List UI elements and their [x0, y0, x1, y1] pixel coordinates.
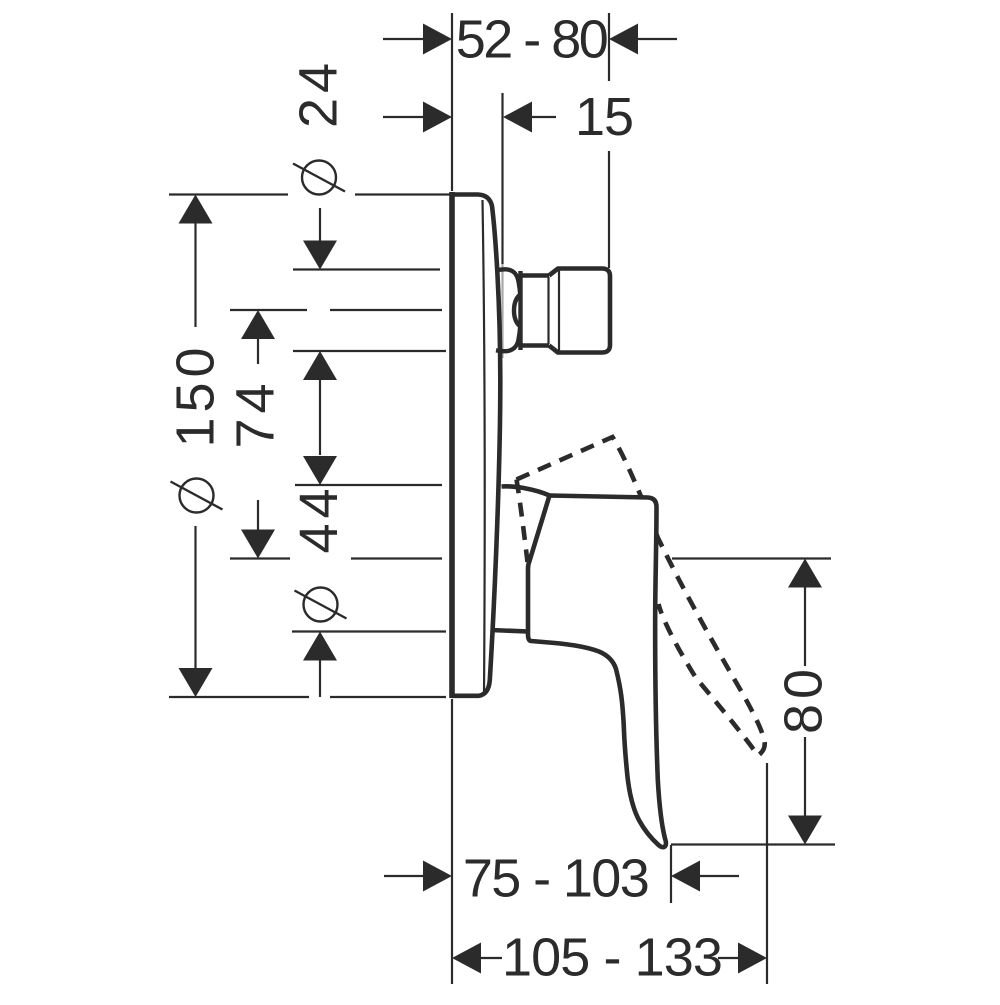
- connector stub cylinder top and bottom edges: [521, 276, 550, 346]
- handle hub bottom edge: [491, 630, 529, 632]
- dimension 74 lower tail: [257, 500, 259, 530]
- dimension 74 top arrowhead: [241, 310, 275, 339]
- escutcheon plate back edge: [449, 192, 455, 698]
- dimension D44 bottom arrowhead: [303, 632, 337, 661]
- handle hub top edge: [502, 486, 550, 495]
- dimension 75-103 right tail: [700, 875, 739, 877]
- reference line: handle pivot level right part: [672, 557, 831, 559]
- dimension 15 right tail: [531, 116, 556, 118]
- svg-text:150: 150: [166, 342, 226, 447]
- connector stub end cap: [549, 269, 610, 353]
- dimension 105-133 right arrowhead: [738, 943, 767, 974]
- extension line: 75-103 dim right: [670, 845, 672, 903]
- reference line: plate bottom right part: [330, 696, 446, 698]
- reference line: plate top right part: [355, 193, 450, 195]
- diameter symbol circle for 44: [304, 588, 338, 622]
- extension line: 15 dim right: [501, 93, 503, 264]
- reference line: handle pivot level left part: [230, 557, 290, 559]
- reference line: hub top level: [295, 484, 442, 486]
- dashed hub edge near plate: [517, 480, 528, 563]
- svg-text:44: 44: [289, 483, 349, 553]
- svg-text:80: 80: [774, 664, 834, 734]
- dimension 52-80 left arrowhead: [423, 24, 452, 55]
- reference line: plate top left part: [169, 193, 288, 195]
- diameter symbol circle for 150: [180, 479, 214, 513]
- dimension D24 upper tail: [319, 208, 321, 242]
- dimension 15 left tail: [383, 116, 424, 118]
- reference line: stub top: [293, 268, 440, 270]
- dashed handle raised position outline: [517, 437, 765, 756]
- escutcheon plate face inner edge: [483, 200, 485, 694]
- dimension D24/D44 shared tail: [319, 379, 321, 455]
- dimension D44 top arrowhead: [303, 456, 337, 485]
- escutcheon plate body: [452, 195, 500, 696]
- diameter symbol slash for 44: [295, 591, 347, 619]
- dimension 80 bottom arrowhead: [788, 816, 822, 845]
- dimension 74 upper tail: [257, 338, 259, 364]
- connector stub cap face line: [558, 270, 560, 352]
- reference line: hub bottom level: [292, 630, 446, 632]
- dimension 80 lower line: [804, 737, 806, 816]
- dimension D150 lower line: [194, 526, 196, 668]
- reference line: stub axis left part: [230, 309, 307, 311]
- extension line: plate back upper: [451, 13, 453, 191]
- dimension D150 upper line: [194, 223, 196, 327]
- svg-text:52 - 80: 52 - 80: [456, 10, 607, 70]
- reference line: plate bottom left part: [169, 696, 309, 698]
- dimension 105-133 right tail: [718, 957, 739, 959]
- extension line: 15 dim right gray continuation: [501, 264, 503, 358]
- dimension D150 bottom arrowhead: [179, 668, 213, 697]
- reference line: handle pivot level mid part: [351, 557, 442, 559]
- reference line: handle tip level: [671, 843, 835, 845]
- extension line: 52-80 dim right upper: [608, 13, 610, 81]
- diameter symbol slash for 150: [171, 482, 223, 510]
- handle lever solid outline: [528, 496, 666, 848]
- dimension 74 bottom arrowhead: [241, 530, 275, 559]
- reference line: stub axis right part: [330, 309, 442, 311]
- dimension D24 top arrowhead: [303, 241, 337, 270]
- extension line: plate back lower: [451, 699, 453, 984]
- connector stub bellows ring: [496, 269, 520, 351]
- dimension 75-103 right arrowhead: [671, 861, 700, 892]
- extension line: 105-133 dim right: [766, 763, 768, 984]
- dimension 75-103 left arrowhead: [423, 861, 452, 892]
- dimension 15 left arrowhead: [423, 102, 452, 133]
- dimension 52-80 left tail: [383, 38, 424, 40]
- dimension 15 right arrowhead: [503, 102, 532, 133]
- reference line: stub bottom: [293, 350, 446, 352]
- dimension 80 upper line: [804, 587, 806, 666]
- extension line: 52-80 dim right lower: [608, 151, 610, 268]
- svg-text:74: 74: [226, 378, 286, 448]
- svg-text:15: 15: [575, 87, 633, 147]
- dimension 52-80 right arrowhead: [609, 24, 638, 55]
- dimension D44 lower tail: [319, 660, 321, 697]
- connector stub cylinder left edge: [518, 271, 522, 350]
- dimension 75-103 left tail: [384, 875, 424, 877]
- dimension D150 top arrowhead: [179, 195, 213, 224]
- diameter symbol circle for 24: [302, 161, 336, 195]
- svg-text:75 - 103: 75 - 103: [463, 849, 648, 909]
- dimension 80 top arrowhead: [788, 559, 822, 588]
- dimension 105-133 left arrowhead: [452, 943, 481, 974]
- connector stub cylinder shoulder line: [547, 277, 549, 344]
- svg-text:24: 24: [289, 58, 349, 128]
- svg-text:105 - 133: 105 - 133: [502, 928, 722, 988]
- dimension 52-80 right tail: [637, 38, 677, 40]
- dimension D24 bottom arrowhead: [303, 351, 337, 380]
- diameter symbol slash for 24: [293, 164, 345, 192]
- dimension 105-133 left tail: [480, 957, 502, 959]
